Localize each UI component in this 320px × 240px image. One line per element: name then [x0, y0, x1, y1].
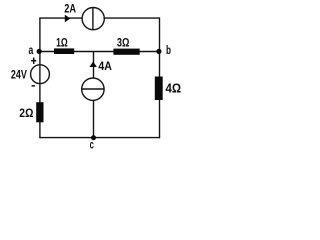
wire bottom [40, 137, 160, 139]
resistor 2ohm bar [36, 102, 43, 122]
current source 2A circle [82, 8, 104, 30]
svg-text:c: c [90, 138, 94, 152]
node b dot [156, 49, 161, 54]
current source 4A circle [82, 78, 104, 100]
label 4A [98, 59, 112, 73]
node c dot [91, 135, 96, 140]
voltage source 24V circle [31, 65, 50, 84]
arrow 4A on middle wire [89, 62, 97, 68]
svg-text:24V: 24V [11, 68, 27, 82]
wire left [39, 17, 41, 138]
wire right [159, 17, 161, 138]
arrow 2A on top wire [65, 15, 71, 23]
plus sign [31, 58, 36, 64]
svg-text:4Ω: 4Ω [166, 80, 182, 95]
label c [90, 138, 94, 152]
wire middle vertical [93, 52, 95, 138]
resistor 1ohm bar [54, 48, 74, 54]
label 4ohm [166, 80, 182, 95]
label 2A [64, 2, 76, 16]
svg-text:3Ω: 3Ω [117, 35, 130, 49]
label 2ohm [19, 106, 33, 120]
label 24V [11, 68, 27, 82]
node a dot [37, 49, 42, 54]
label 1ohm [56, 38, 68, 50]
label b [166, 43, 171, 57]
label 3ohm [117, 35, 130, 49]
wire top [40, 17, 160, 19]
label a [29, 43, 34, 57]
svg-text:4A: 4A [98, 59, 112, 73]
svg-text:a: a [29, 43, 34, 57]
svg-text:1Ω: 1Ω [56, 38, 68, 50]
svg-text:2A: 2A [64, 2, 76, 16]
wire node a to node b [40, 51, 160, 53]
resistor 4ohm bar [155, 77, 163, 101]
resistor 3ohm bar [113, 49, 139, 55]
svg-text:b: b [166, 43, 171, 57]
svg-text:2Ω: 2Ω [19, 106, 33, 120]
minus sign [32, 85, 35, 87]
